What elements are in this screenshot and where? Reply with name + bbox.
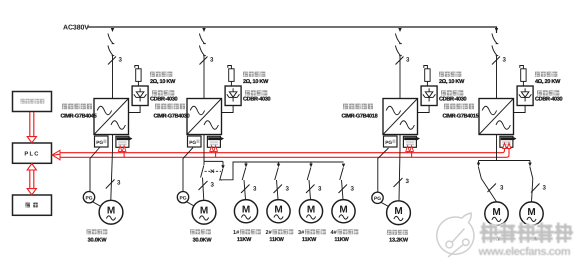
node gantry feeder tap 2	[278, 162, 280, 164]
wire R3 to braking unit	[426, 81, 428, 86]
wire U4 output stub	[496, 135, 498, 151]
motor trolley 2	[520, 202, 543, 225]
inverter U2 box	[187, 99, 222, 135]
red RS485 communication bus (upper wire)	[60, 147, 505, 153]
wire PG3 to motor M3 shaft	[381, 202, 390, 207]
svg-text:3#: 3#	[298, 230, 305, 236]
label inverter U4 name (CJK)	[444, 104, 449, 110]
svg-text:M: M	[242, 205, 250, 216]
wire QF4 to inverter U4	[496, 56, 498, 99]
node trolley feeder end 1	[478, 161, 480, 164]
wire KM4 to motor	[277, 180, 279, 200]
encoder PG1	[83, 192, 94, 203]
wire KM2 to gantry motor feeder	[220, 162, 344, 181]
svg-text:3: 3	[500, 185, 504, 192]
label braking resistor (CJK) R1	[150, 72, 155, 77]
red bus drop arrows to comm card U3	[407, 151, 409, 153]
svg-text:CDBR-4030: CDBR-4030	[243, 96, 270, 102]
wire KM1 to motor M2	[203, 178, 204, 201]
3-phase slash, branch 3	[396, 57, 404, 65]
wire KM6 to motor	[342, 180, 344, 200]
label motor M3 name (CJK)	[387, 230, 392, 235]
contactor KM4 (gantry motor 2)	[275, 168, 279, 181]
wire U4 output to trolley feeder	[479, 150, 531, 161]
node gantry feeder tap 3	[310, 162, 312, 164]
console box (linkage console, CJK label)	[13, 92, 52, 112]
breaker QF1	[108, 34, 114, 56]
red bus drop arrows to comm card U2	[211, 151, 213, 153]
wire QF3 to inverter U3	[399, 56, 401, 99]
svg-text:PG: PG	[385, 140, 392, 146]
svg-text:M: M	[527, 207, 535, 218]
braking unit VB2	[225, 86, 241, 106]
svg-text:PG: PG	[85, 195, 92, 201]
svg-text:M: M	[339, 205, 347, 216]
wire VB4 to U4 DC link	[514, 106, 526, 113]
wire KM3 to motor	[244, 180, 246, 200]
encoder PG3	[372, 192, 383, 203]
svg-text:2#: 2#	[266, 230, 273, 236]
contactor trolley 1	[478, 167, 481, 179]
wire U3 to motor M3	[399, 150, 400, 200]
svg-text:2Ω, 10 KW: 2Ω, 10 KW	[150, 79, 176, 85]
contactor KM1 (to luffing motor M2)	[201, 166, 204, 178]
svg-text:M: M	[492, 207, 500, 218]
inverter U3 input sine symbol	[386, 106, 400, 115]
svg-text:CDBR-4030: CDBR-4030	[150, 96, 177, 102]
svg-text:CDBR-4030: CDBR-4030	[535, 96, 562, 102]
wire R1 to braking unit	[137, 81, 139, 86]
svg-text:CIMR-G7B4018: CIMR-G7B4018	[342, 114, 378, 120]
inverter U2 output sine symbol	[204, 121, 218, 130]
wire to trolley motor 1	[481, 179, 496, 202]
motor gantry 1	[234, 200, 257, 223]
wire AC380V bus	[88, 27, 497, 33]
3-phase slash, branch 2	[200, 57, 208, 65]
inverter U4 box	[479, 99, 514, 135]
svg-text:2Ω, 10 KW: 2Ω, 10 KW	[439, 79, 465, 85]
svg-text:3: 3	[210, 57, 214, 64]
svg-text:3: 3	[406, 57, 410, 64]
svg-text:3: 3	[503, 57, 507, 64]
wire U1 to motor M1	[111, 150, 113, 200]
communication card (MEMOBUS), U3	[403, 136, 416, 147]
braking resistor R2	[229, 69, 234, 82]
node tap T2 on AC380V bus	[202, 28, 205, 32]
svg-text:3: 3	[117, 180, 121, 187]
node trolley feeder end 2	[529, 161, 531, 164]
wire QF2 to inverter U2	[203, 56, 205, 99]
svg-text:2Ω, 10 KW: 2Ω, 10 KW	[243, 79, 269, 85]
svg-text:3: 3	[543, 185, 547, 192]
3-phase slash, branch 4	[492, 57, 500, 65]
svg-text:3: 3	[211, 182, 215, 189]
label inverter U1 name (CJK)	[62, 104, 67, 110]
motor M3 (slewing)	[387, 201, 411, 225]
red bus end arrows into comm card U4	[503, 143, 507, 148]
inverter U1 box	[94, 99, 129, 135]
3-phase slash, branch 1	[108, 57, 116, 65]
svg-text:11KW: 11KW	[269, 237, 284, 243]
motor trolley 1	[485, 202, 508, 225]
svg-text:AC380V: AC380V	[63, 25, 89, 32]
watermark wash over trolley labels	[468, 224, 585, 245]
label braking unit (CJK) VB2	[245, 90, 250, 95]
svg-text:M: M	[200, 206, 208, 217]
label braking unit (CJK) VB1	[152, 90, 157, 95]
motor M2 (luffing)	[192, 200, 216, 224]
label motor M2 name (CJK)	[190, 229, 195, 234]
svg-text:11KW: 11KW	[334, 237, 349, 243]
braking resistor R4	[521, 69, 526, 82]
PLC box	[13, 143, 52, 163]
motor M1 (hoist)	[99, 200, 123, 224]
inverter U4 input sine symbol	[482, 106, 496, 115]
wire U2 output stub	[203, 135, 205, 151]
communication card (MEMOBUS), U4	[500, 136, 513, 147]
contactor KM6 (gantry motor 4)	[340, 168, 344, 181]
inverter U4 output sine symbol	[496, 121, 510, 130]
wire R2 to braking unit	[230, 81, 232, 86]
svg-text:PLC: PLC	[24, 151, 39, 158]
svg-text:13.2KW: 13.2KW	[389, 238, 409, 244]
inverter U1 input sine symbol	[97, 106, 111, 115]
svg-text:M: M	[307, 205, 315, 216]
label motor M1 name (CJK)	[87, 229, 92, 234]
contactor KM2 (to gantry motors)	[220, 169, 223, 181]
wire VB1 to U1 DC link	[129, 106, 141, 113]
PG feedback card, U3	[384, 136, 398, 147]
wire U3 output stub	[399, 135, 401, 151]
inverter U3 box	[383, 99, 418, 135]
wire PG2 to motor M2 shaft	[187, 202, 196, 207]
svg-text:3: 3	[286, 186, 290, 193]
motor gantry 4	[332, 200, 355, 223]
svg-text:30.0KW: 30.0KW	[193, 238, 213, 244]
red RS485 communication bus (lower wire)	[60, 147, 510, 157]
svg-text:4Ω, 20 KW: 4Ω, 20 KW	[535, 79, 561, 85]
svg-text:3: 3	[119, 57, 123, 64]
braking resistor R1	[136, 69, 141, 82]
breaker QF4	[492, 34, 498, 56]
svg-text:30.0KW: 30.0KW	[88, 238, 108, 244]
wire U1 output stub	[112, 135, 114, 151]
red link console to PLC (down arrow)	[30, 112, 34, 137]
wire PG card U1 to encoder PG1	[90, 147, 100, 192]
motor gantry 3	[299, 200, 322, 223]
wire PG1 to motor M1 shaft	[93, 202, 102, 207]
braking unit VB4	[517, 86, 533, 106]
wire R4 to braking unit	[522, 81, 524, 86]
svg-text:PG: PG	[96, 140, 103, 146]
red bus arrowheads into PLC	[53, 150, 61, 155]
svg-text:CDBR-4030: CDBR-4030	[439, 96, 466, 102]
svg-text:11KW: 11KW	[237, 237, 252, 243]
svg-text:www.elecfans.com: www.elecfans.com	[478, 246, 571, 258]
wire VB3 to U3 DC link	[418, 106, 430, 113]
svg-text:1#: 1#	[233, 230, 240, 236]
svg-text:M: M	[394, 206, 402, 217]
braking unit VB3	[421, 86, 437, 106]
motor gantry 2	[267, 200, 290, 223]
contactor trolley 2	[530, 167, 533, 179]
svg-text:PG: PG	[189, 140, 196, 146]
svg-text:3: 3	[318, 186, 322, 193]
red link PLC to display (double arrow)	[30, 170, 34, 190]
PG feedback card, U1	[95, 136, 109, 147]
svg-text:CIMR-G7B4030: CIMR-G7B4030	[154, 114, 190, 120]
label braking unit (CJK) VB3	[441, 90, 446, 95]
wire PG card U2 to encoder PG2	[183, 148, 193, 192]
label braking unit (CJK) VB4	[537, 90, 542, 95]
3-phase slash M1	[106, 180, 115, 189]
red bus drop arrows to comm card U1	[119, 151, 121, 153]
wire KM5 to motor	[309, 180, 311, 200]
svg-text:11KW: 11KW	[302, 237, 317, 243]
wire U2 output to interlock split	[204, 150, 223, 166]
label inverter U2 name (CJK)	[155, 104, 160, 110]
communication card (MEMOBUS), U2	[207, 136, 220, 147]
svg-text:4#: 4#	[331, 230, 338, 236]
communication card (MEMOBUS), U1	[116, 136, 129, 147]
node tap T1 on AC380V bus	[111, 28, 114, 32]
wire to trolley motor 2	[532, 179, 533, 202]
svg-text:3: 3	[351, 186, 355, 193]
mechanical interlock dashed link KM1-KM2	[205, 170, 222, 172]
breaker QF2	[199, 34, 205, 56]
watermark: elecfans logo (white embossed circle)	[437, 213, 474, 257]
display box (CJK label)	[13, 195, 52, 215]
node tap T4 on AC380V bus	[495, 28, 498, 32]
PG feedback card, U2	[188, 136, 202, 147]
inverter U3 output sine symbol	[400, 121, 414, 130]
contactor KM5 (gantry motor 3)	[307, 168, 311, 181]
node gantry feeder tap 1	[245, 162, 247, 164]
svg-text:PG: PG	[374, 196, 381, 202]
inverter U2 input sine symbol	[190, 106, 204, 115]
label braking resistor (CJK) R2	[243, 72, 248, 77]
braking unit VB1	[132, 86, 148, 106]
wire PG card U3 to encoder PG3	[378, 148, 389, 192]
svg-text:M: M	[274, 205, 282, 216]
label braking resistor (CJK) R3	[439, 72, 444, 77]
braking resistor R3	[425, 69, 430, 82]
svg-text:3: 3	[253, 186, 257, 193]
svg-text:CIMR-G7B4045: CIMR-G7B4045	[61, 114, 97, 120]
svg-text:M: M	[107, 206, 115, 217]
svg-text:3: 3	[406, 178, 410, 185]
svg-text:PG: PG	[179, 195, 186, 201]
watermark: brand CJK text	[480, 223, 573, 244]
wire VB2 to U2 DC link	[222, 106, 234, 113]
node gantry feeder tap 4	[342, 164, 345, 168]
label inverter U3 name (CJK)	[343, 104, 348, 110]
wire QF1 to inverter U1	[112, 56, 114, 99]
inverter U1 output sine symbol	[111, 121, 125, 130]
contactor KM3 (gantry motor 1)	[242, 168, 246, 181]
label braking resistor (CJK) R4	[535, 72, 540, 77]
svg-text:CIMR-G7B4015: CIMR-G7B4015	[443, 114, 479, 120]
breaker QF3	[395, 34, 401, 56]
node tap T3 on AC380V bus	[398, 28, 401, 32]
encoder PG2	[177, 192, 188, 203]
